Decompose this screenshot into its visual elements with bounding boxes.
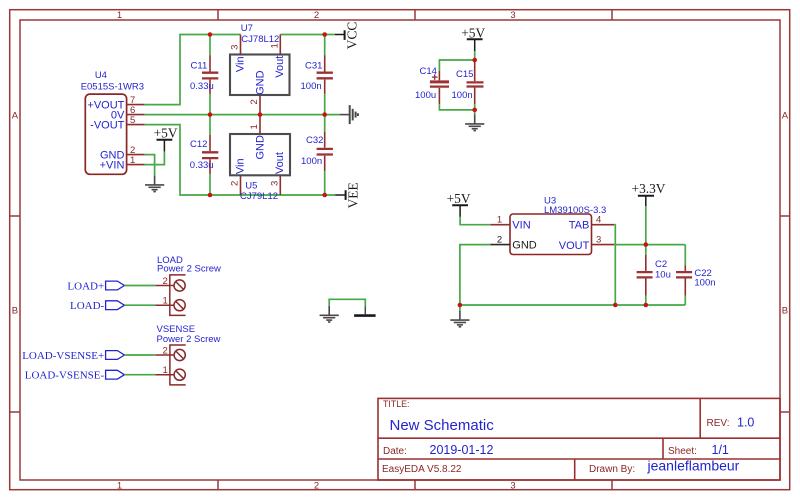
voltage regulator U7 CJ78L12 (230, 23, 290, 115)
capacitor C15 100n (452, 62, 484, 104)
svg-text:+5V: +5V (447, 191, 471, 206)
wire +5V to VIN (460, 217, 490, 225)
svg-text:1: 1 (130, 155, 135, 166)
title block (378, 398, 780, 480)
svg-text:A: A (782, 110, 789, 121)
power flag +5V (U4) (154, 125, 178, 151)
voltage regulator U5 CJ79L12 (230, 115, 291, 202)
svg-text:REV:: REV: (707, 418, 730, 429)
wire VOUT rail (614, 244, 685, 246)
connector VSENSE (Power 2 Screw) (155, 324, 220, 385)
svg-text:CJ79L12: CJ79L12 (240, 191, 278, 202)
svg-text:0.33u: 0.33u (190, 81, 214, 92)
svg-text:3: 3 (510, 10, 515, 21)
wire VCC rail right segment (280, 34, 335, 36)
wire +VOUT to VCC rail (145, 35, 241, 105)
svg-text:2: 2 (163, 345, 168, 356)
svg-text:Vout: Vout (274, 152, 286, 174)
svg-text:100u: 100u (415, 90, 436, 101)
svg-text:C2: C2 (655, 259, 667, 270)
svg-text:Power 2 Screw: Power 2 Screw (157, 334, 221, 345)
svg-text:+5V: +5V (461, 25, 485, 40)
svg-text:C11: C11 (191, 61, 208, 72)
svg-text:3: 3 (230, 45, 241, 50)
svg-text:GND: GND (254, 70, 266, 95)
power flag VEE (335, 182, 360, 208)
power flag +3.3V (632, 181, 666, 206)
wire +5V to node (474, 51, 476, 60)
power flag +5V (U3) (447, 191, 471, 217)
svg-text:1: 1 (163, 365, 168, 376)
ground (C14/C15) (465, 114, 484, 130)
earth bar flag (mid sheet) (354, 306, 376, 315)
wire LOAD-VSENSE- (124, 374, 155, 376)
ground (U4) (145, 175, 164, 191)
svg-text:3: 3 (269, 181, 280, 186)
connector LOAD (Power 2 Screw) (155, 255, 221, 315)
svg-text:C12: C12 (190, 139, 207, 150)
svg-text:1: 1 (269, 43, 280, 48)
capacitor C22 100n (676, 245, 716, 305)
svg-text:2: 2 (497, 235, 502, 246)
U3 pin 1 VIN (490, 224, 510, 226)
wire C15 bottom to ground (474, 104, 476, 114)
wire 0V mid rail (145, 114, 340, 116)
svg-text:Vin: Vin (234, 158, 246, 174)
junction dots (U3 area) (458, 242, 648, 307)
svg-text:New Schematic: New Schematic (390, 417, 495, 434)
svg-text:100n: 100n (694, 278, 715, 289)
svg-text:LOAD+: LOAD+ (67, 280, 104, 292)
svg-text:A: A (12, 110, 19, 121)
svg-text:1: 1 (249, 124, 260, 129)
U3 pin 3 VOUT (592, 244, 615, 246)
svg-text:4: 4 (596, 215, 601, 226)
wire C12 leads (209, 115, 211, 195)
svg-text:U4: U4 (95, 70, 107, 81)
wire +3.3V to VOUT rail (645, 206, 647, 245)
wire U3 gnd stem (459, 305, 461, 311)
svg-text:10u: 10u (655, 270, 671, 281)
power flag +5V (C14/C15) (461, 25, 485, 51)
svg-text:100n: 100n (301, 81, 322, 92)
svg-text:LOAD-VSENSE+: LOAD-VSENSE+ (22, 350, 104, 362)
svg-text:Sheet:: Sheet: (668, 446, 697, 457)
svg-text:+VIN: +VIN (100, 159, 125, 171)
svg-text:VOUT: VOUT (559, 240, 590, 252)
svg-text:Power 2 Screw: Power 2 Screw (157, 263, 221, 274)
svg-text:100n: 100n (452, 90, 473, 101)
net flag LOAD-VSENSE- (25, 370, 125, 382)
junction dots (C14/C15) (472, 58, 477, 112)
svg-text:C32: C32 (306, 135, 323, 146)
svg-text:VIN: VIN (512, 220, 530, 232)
svg-text:0.33u: 0.33u (190, 160, 214, 171)
svg-text:2: 2 (163, 276, 168, 287)
svg-text:1: 1 (117, 10, 122, 21)
power flag VCC (335, 22, 359, 50)
wire LOAD-VSENSE+ (124, 354, 155, 356)
svg-text:1/1: 1/1 (712, 443, 729, 457)
svg-text:VCC: VCC (344, 22, 359, 50)
wire C32 leads (324, 115, 326, 195)
wire GND pin to ground rail (460, 245, 490, 305)
wire C11 leads (209, 35, 211, 115)
svg-text:2019-01-12: 2019-01-12 (430, 443, 494, 457)
svg-text:1: 1 (163, 296, 168, 307)
svg-text:1.0: 1.0 (737, 416, 754, 430)
wire TAB to ground rail (614, 225, 615, 305)
wire -VOUT to VEE rail (145, 125, 336, 195)
capacitor C31 100n (301, 55, 333, 94)
svg-text:TITLE:: TITLE: (383, 399, 409, 409)
net flag LOAD- (70, 300, 124, 312)
svg-text:Drawn By:: Drawn By: (589, 464, 635, 475)
svg-text:+3.3V: +3.3V (632, 181, 666, 196)
DC-DC converter U4 E0515S-1WR3 (81, 70, 145, 174)
capacitor C2 10u (637, 245, 671, 305)
svg-text:LOAD-: LOAD- (70, 300, 105, 312)
svg-text:C15: C15 (456, 69, 473, 80)
wire C14 bottom to node (439, 104, 474, 110)
svg-text:jeanleflambeur: jeanleflambeur (647, 458, 740, 474)
svg-text:1: 1 (117, 480, 122, 491)
U3 pin 4 TAB (592, 224, 615, 226)
capacitor C32 100n (301, 132, 333, 172)
svg-text:B: B (782, 305, 788, 316)
svg-text:GND: GND (254, 135, 266, 160)
svg-text:Date:: Date: (383, 446, 407, 457)
svg-text:3: 3 (510, 480, 515, 491)
svg-text:2: 2 (314, 10, 319, 21)
svg-text:1: 1 (497, 215, 502, 226)
wire node to C14 top (439, 60, 474, 71)
svg-text:U5: U5 (245, 180, 257, 191)
wire C31 leads (324, 35, 326, 115)
ground (U3) (450, 311, 469, 327)
svg-text:U7: U7 (241, 23, 253, 34)
net flag LOAD-VSENSE+ (22, 350, 124, 362)
svg-text:B: B (12, 305, 18, 316)
svg-text:C31: C31 (305, 61, 322, 72)
wire U3 ground rail (460, 304, 685, 306)
capacitor C14 100u (polarized) (415, 66, 449, 104)
ground flag (0V rail, sideways) (340, 105, 358, 124)
svg-text:2: 2 (230, 181, 241, 186)
regulator U3 LM39100S-3.3 (490, 196, 614, 255)
wire U4 +VIN to +5V (145, 152, 165, 165)
svg-text:100n: 100n (301, 156, 322, 167)
svg-text:-VOUT: -VOUT (90, 119, 125, 131)
svg-text:2: 2 (314, 480, 319, 491)
ground (mid sheet) (320, 306, 339, 322)
U3 pin 2 GND (490, 244, 510, 246)
svg-text:3: 3 (596, 235, 601, 246)
wire ground to earth bar (329, 299, 365, 306)
svg-text:C14: C14 (420, 66, 437, 77)
svg-text:VEE: VEE (346, 182, 361, 208)
wire LOAD- (124, 304, 155, 306)
svg-text:5: 5 (130, 115, 135, 126)
svg-text:E0515S-1WR3: E0515S-1WR3 (81, 81, 144, 92)
svg-text:GND: GND (512, 240, 537, 252)
capacitor C12 0.33u (190, 135, 219, 174)
svg-text:LOAD-VSENSE-: LOAD-VSENSE- (25, 370, 105, 382)
svg-text:+5V: +5V (154, 125, 178, 140)
svg-text:EasyEDA V5.8.22: EasyEDA V5.8.22 (382, 464, 462, 475)
wire U4 GND to ground (145, 155, 155, 176)
wire LOAD+ (124, 285, 155, 287)
svg-text:TAB: TAB (569, 220, 590, 232)
svg-text:2: 2 (249, 99, 260, 104)
svg-text:Vin: Vin (234, 56, 246, 72)
net flag LOAD+ (67, 280, 124, 292)
svg-text:Vout: Vout (274, 56, 286, 78)
junction dots (U4/U7/U5 rails) (208, 32, 327, 197)
capacitor C11 0.33u (190, 55, 218, 94)
